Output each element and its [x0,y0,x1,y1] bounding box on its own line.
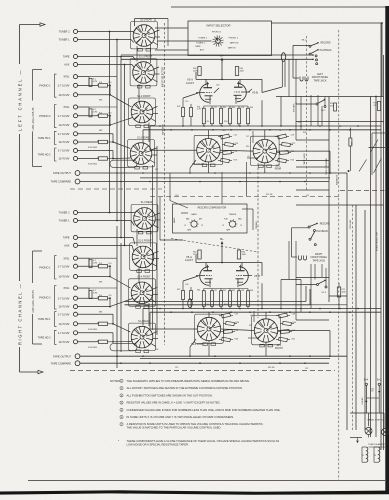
channel separation dashed line upper right [150,196,340,198]
filament feed wires [362,447,385,462]
input jack 2-7 10 MV [58,83,98,87]
right tape output bus wire [80,355,347,357]
svg-text:2-7 10 MV: 2-7 10 MV [58,84,70,88]
svg-text:TUNER 1: TUNER 1 [196,42,206,44]
svg-text:BASS: BASS [191,213,197,216]
svg-text:C26: C26 [234,151,237,153]
svg-text:R88: R88 [352,142,354,145]
svg-text:TAPE OUTPUT: TAPE OUTPUT [53,171,71,175]
svg-text:XTAL: XTAL [63,286,70,290]
svg-text:R45: R45 [232,107,235,109]
svg-text:V5-B: V5-B [254,274,260,278]
svg-text:TAPE IN: TAPE IN [228,46,236,49]
right area horizontal wire y279.5 [281,279,301,281]
vertical bus wire B right channel [120,243,122,352]
vertical bus wire aux [124,65,126,246]
INPUT SELECTOR box [188,21,272,56]
right vertical wire x370.5 [370,97,372,438]
BASS knob [184,213,203,231]
svg-text:10-70 MV: 10-70 MV [58,340,69,344]
svg-text:TAPE JACK: TAPE JACK [303,153,306,165]
svg-text:TAPE COMPARE: TAPE COMPARE [325,157,328,175]
svg-text:R41: R41 [292,339,295,341]
svg-text:TAPE: TAPE [63,55,70,59]
input jack TUNER 1 [59,37,131,41]
EQ network cluster right [275,130,295,163]
svg-text:500K: 500K [342,291,347,293]
svg-text:AUX: AUX [64,244,70,248]
svg-text:2-7 10 MV: 2-7 10 MV [58,149,70,153]
svg-text:TREBLE: TREBLE [256,221,258,229]
input jack 2-7 10 MV [58,296,98,300]
svg-text:R-6: R-6 [109,112,112,114]
selector box left stub wires [155,28,188,50]
svg-text:S7-2: S7-2 [322,292,327,294]
svg-text:12AX7: 12AX7 [185,258,194,262]
svg-text:78: 78 [240,225,242,227]
input jack XTAL [63,286,89,290]
rotary switch wafer S1-2 REAR [128,136,155,169]
rotary switch wafer S1-2 FRONT [129,96,156,128]
LOW LEVEL INPUTS bracket [32,251,42,344]
svg-text:S2-2 FRONT: S2-2 FRONT [191,344,205,346]
svg-text:C31: C31 [306,195,309,197]
svg-text:TAPE HD: TAPE HD [230,41,239,44]
svg-text:R-5: R-5 [109,263,112,265]
volume feed resistor [337,283,346,309]
schematic bottom border line [28,480,385,482]
RECORD PLAYBACK switch right channel [308,223,330,246]
svg-text:R19: R19 [234,160,237,162]
rotary switch wafer S1-3 FRONT [130,241,157,273]
shielded pair wire left channel [121,53,314,93]
svg-text:S1-4 REAR: S1-4 REAR [138,320,150,323]
TAPE HD 1 group label and bracket [38,312,57,327]
rotary wafer S2-2 REAR [192,135,223,166]
svg-text:PHONO 2: PHONO 2 [229,37,239,39]
svg-text:C38: C38 [241,290,244,292]
input jack 10-70 MV [58,140,98,144]
coupling cap C16 [214,85,252,94]
shield wire over S1-1 [135,19,169,27]
tape head 2 load resistor [88,340,108,349]
plate supply rail V3 [196,72,262,93]
vertical bus wire long right channel [116,226,118,368]
LEFT FRONT PANEL TAPE JACK label [312,73,329,82]
tube V5-A 12AX7 [185,255,213,288]
svg-text:REAR: REAR [275,167,282,170]
phono 2 divider resistor box [99,295,112,314]
phono group junction wires [89,258,114,342]
channel divider vertical wire [19,25,21,373]
misc value labels sprinkle [155,122,309,370]
svg-text:VOLUME: VOLUME [350,219,352,229]
svg-text:R40: R40 [293,322,296,324]
svg-text:RECORD: RECORD [320,224,330,226]
svg-text:R65: R65 [232,290,235,292]
input jack 2-7 10 MV [58,114,98,118]
S2 wafer vertical stubs right channel [209,312,266,356]
front panel jack hook outline [293,45,310,81]
svg-text:CONDENSER VALUES ARE IN MFD FO: CONDENSER VALUES ARE IN MFD FOR NUMBERS … [127,408,281,412]
sheet bottom black edge line [0,490,389,495]
svg-text:R38: R38 [236,322,239,324]
svg-text:LEFT CHANNEL —: LEFT CHANNEL — [17,69,22,131]
svg-text:100K: 100K [240,70,245,72]
shield loop around tape head wires right [110,344,137,351]
right vertical wire x365 [364,210,366,430]
input jack 10-70 MV [58,305,110,309]
TAPE COMPARE jack [51,361,80,366]
right area horizontal wire y296 [329,295,347,297]
balance pot diagonal wiper A [371,140,379,153]
plate resistor R40 [193,67,201,76]
svg-text:R17: R17 [155,169,158,171]
mid right mesh wires lower [248,264,329,338]
svg-text:AUX: AUX [200,49,205,52]
svg-text:10-70 MV: 10-70 MV [58,140,69,144]
right vertical wire x347 [346,173,348,430]
right tape bus junction dots [116,355,311,364]
right area horizontal wire y205 [296,204,384,206]
B+ feed arrow top [221,64,223,80]
svg-text:R24: R24 [303,132,306,134]
TAPE OUTPUT jack [53,171,80,176]
svg-text:PHONO 1: PHONO 1 [39,266,51,269]
svg-text:R61: R61 [197,290,200,292]
selector-to-right frame wire [272,22,384,97]
svg-text:R42: R42 [223,107,226,109]
TAPE HD 2 group label and bracket [38,148,57,161]
tape head 2 load resistor [88,157,108,166]
input jack TAPE [63,54,133,58]
V3 left grid components [177,93,198,126]
svg-text:R49 1M: R49 1M [268,367,275,369]
phono group junction wires [89,77,114,160]
input jack 10-70 MV [58,93,110,97]
panel lamp 2 [382,429,389,436]
svg-text:INPUT SELECTOR: INPUT SELECTOR [162,67,164,87]
svg-text:10-70 MV: 10-70 MV [58,157,69,161]
S2 right wafer feed wires [150,329,331,357]
wafer interconnect wires right channel [89,211,137,341]
svg-text:TUNER 1: TUNER 1 [59,38,70,42]
PHONO 1 group label and bracket [39,74,56,97]
resistor R-82 label [366,388,381,402]
tube filament winding V1 [362,447,368,462]
svg-text:.02: .02 [279,130,282,132]
svg-text:R20: R20 [246,146,249,148]
svg-text:4.7M: 4.7M [93,292,98,294]
svg-text:220K: 220K [193,254,198,256]
svg-text:C35: C35 [185,284,188,286]
svg-text:C37: C37 [214,290,217,292]
input jack 2-7 10 MV [58,331,113,335]
LOW LEVEL INPUTS bracket [32,70,42,167]
right vertical wire x383.5 [383,55,385,450]
tape output bus wire [80,172,347,174]
svg-text:220K: 220K [193,70,198,72]
phono 1 grid resistor [89,260,97,268]
power wires bottom right [350,413,384,440]
right tape shield bus wire [140,358,330,360]
right area horizontal wire y121.5 [296,121,384,123]
svg-text:1.0: 1.0 [298,122,301,124]
svg-text:10-70 MV: 10-70 MV [58,123,69,127]
S1 ganged shaft dash line [164,23,166,345]
input jack 2-7 10 MV [58,312,113,316]
svg-text:HUM ADJ: HUM ADJ [361,397,364,405]
svg-text:10-70 MV: 10-70 MV [58,93,69,97]
svg-text:TAPE HD 1: TAPE HD 1 [38,137,51,140]
EQ network cluster right channel B [276,313,296,342]
S2 ganged shaft dash line [257,163,259,318]
svg-text:BASS: BASS [173,217,176,223]
svg-text:C48: C48 [292,314,295,316]
svg-text:TAPE COMPARE: TAPE COMPARE [51,361,71,365]
svg-text:A RESISTOR IN SOME UNITS IS US: A RESISTOR IN SOME UNITS IS USED TO OBTA… [127,422,264,426]
plate resistor R60 [193,250,201,259]
svg-text:C18: C18 [241,107,244,109]
selector shield stub [167,19,169,47]
svg-text:THESE COMPONENTS HAVE A CLOSE: THESE COMPONENTS HAVE A CLOSE TOLERANCE … [127,439,280,443]
svg-text:PHONO 2: PHONO 2 [39,115,51,118]
switch S7-2 [296,268,327,294]
input jack XTAL [63,256,89,260]
record playback mechanical dash link [305,36,307,190]
RECORD PLAYBACK switch left channel [309,42,332,65]
vertical bus wire tuner2 [109,32,111,213]
svg-text:R-52 680K: R-52 680K [88,329,98,331]
svg-text:TAPE: TAPE [195,45,201,48]
inter-wafer vertical wire x152.5 [152,165,154,330]
svg-text:XTAL: XTAL [63,105,70,109]
V5 left grid components [177,276,198,309]
svg-text:C27: C27 [246,136,249,138]
input jack XTAL [63,75,89,79]
B+ feed arrow right channel [221,247,223,263]
svg-text:TAPE OUTPUT: TAPE OUTPUT [53,354,71,358]
right channel feed arrow [20,370,44,373]
svg-text:PANEL LIGHTS: PANEL LIGHTS [368,419,384,422]
svg-text:R43: R43 [224,121,227,123]
svg-text:C46: C46 [235,330,238,332]
right vertical wire x329 [328,97,330,303]
svg-text:V3-B: V3-B [252,91,258,95]
phono 1 divider resistor box [99,263,112,284]
EQ network cluster left [218,130,238,163]
svg-text:RESISTOR VALUES ARE IN OHMS, K: RESISTOR VALUES ARE IN OHMS, K = 1000. ½… [127,401,221,405]
svg-text:C47: C47 [250,315,253,317]
svg-text:C28: C28 [291,135,294,137]
input jack AUX [64,243,132,247]
svg-text:B+4: B+4 [364,380,369,382]
rotary wafer S2-1 REAR [251,136,282,170]
svg-text:TUNER 2: TUNER 2 [198,37,208,39]
svg-text:TAPE HD 2: TAPE HD 2 [38,154,51,157]
selector position labels [195,31,239,51]
svg-text:PHONO 2: PHONO 2 [39,296,51,299]
svg-text:IN SOME UNITS X IS 470 MMF AND: IN SOME UNITS X IS 470 MMF AND Y IS TWO … [127,415,235,419]
resistor R88 drop [348,128,354,172]
bus drop wires left channel [143,59,301,150]
svg-text:RIGHT CHANNEL —: RIGHT CHANNEL — [17,283,22,345]
wafer output stub wires [150,30,161,347]
B+ source terminal B+3 [377,380,382,414]
input selector dial [157,35,224,46]
svg-text:R-52 680K: R-52 680K [88,147,98,149]
svg-text:2-7 10 MV: 2-7 10 MV [58,132,70,136]
PHONO 2 group label and bracket [39,286,56,310]
inter-wafer vertical wire x157 [156,146,158,335]
audio bus wire pair left channel [143,125,381,130]
bus drop wires right channel [143,241,301,329]
TAPE HD 2 group label and bracket [38,330,57,344]
svg-text:12AX7: 12AX7 [186,81,195,85]
compensator mechanical dashed diagonal [171,239,258,253]
wafer interconnect wires left channel [89,29,136,159]
PHONO 1 group label and bracket [39,256,56,279]
tube V3-B [234,81,259,104]
svg-text:2-7 10 MV: 2-7 10 MV [58,331,70,335]
svg-text:RECORD: RECORD [321,43,331,45]
channel separation dashed line upper left [70,188,162,190]
svg-text:LP: LP [184,225,186,227]
svg-text:PLAYBACK: PLAYBACK [320,49,332,52]
V5 network labels [197,290,253,307]
svg-text:THE SCHEMATIC APPLIES TO C8S P: THE SCHEMATIC APPLIES TO C8S PREAMPLIFIE… [127,379,251,383]
svg-text:MODE SELECTOR: MODE SELECTOR [377,232,379,251]
svg-text:NOTES:: NOTES: [110,379,121,383]
svg-text:LOW LEVEL INPUTS: LOW LEVEL INPUTS [32,107,35,130]
svg-text:10-70 MV: 10-70 MV [58,322,69,326]
svg-text:INPUT SELECTOR: INPUT SELECTOR [206,23,230,27]
right vertical wire x381 [380,23,382,450]
svg-text:C45: C45 [235,314,238,316]
input jack 10-70 MV [58,340,98,344]
shielded pair wire right channel [125,286,311,308]
svg-text:4.7M: 4.7M [93,263,98,265]
shield loop around tape head wires left [110,160,137,167]
svg-text:TUBE FILAMENTS: TUBE FILAMENTS [368,443,387,446]
input jack XTAL [63,105,89,109]
svg-text:C15: C15 [185,101,188,103]
svg-text:10-70 MV: 10-70 MV [58,275,69,279]
plate supply rail V5 [196,255,262,276]
svg-text:R46: R46 [250,107,253,109]
svg-text:.005: .005 [222,130,226,132]
rotary wafer S2-1 FRONT [252,316,284,350]
V3 cathode network components [202,106,249,126]
plate resistor R64 [237,250,246,259]
svg-text:R-53 680K: R-53 680K [88,347,98,349]
svg-text:B+: B+ [220,53,224,57]
phono 1 divider resistor box [99,82,112,102]
balance pot diagonal wiper C [359,160,367,172]
rotary switch wafer S1-1 REAR [131,18,158,51]
svg-text:THE VALUE IS MATCHED TO THE PA: THE VALUE IS MATCHED TO THE PARTICULAR V… [127,426,222,430]
svg-text:B+3: B+3 [377,380,382,382]
svg-text:S8-1: S8-1 [301,40,306,42]
svg-text:PLAYBACK: PLAYBACK [316,230,328,233]
svg-text:FRONT: FRONT [275,348,284,350]
svg-text:C50: C50 [206,121,209,123]
sheet top border wire [171,6,386,8]
close tolerance note [118,439,279,447]
svg-text:S2-1: S2-1 [276,166,282,168]
svg-text:S2-1: S2-1 [277,345,283,347]
sheet right edge black bar [385,6,389,492]
svg-text:4.7M: 4.7M [93,81,98,83]
V5 cathode network components [202,289,249,309]
svg-text:100K: 100K [242,254,247,256]
svg-text:C30: C30 [175,195,178,197]
tube V5-B [236,265,261,288]
svg-text:R-5: R-5 [109,82,112,84]
svg-text:TUNER 2: TUNER 2 [59,211,70,215]
svg-text:RECORD COMPENSATOR: RECORD COMPENSATOR [198,207,227,210]
EQ network cluster right channel A [219,313,239,342]
svg-text:R23: R23 [291,160,294,162]
TAPE COMPARE jack [51,179,80,184]
mid right mesh wires upper [247,95,329,167]
rotary switch wafer S1-4 REAR [129,320,156,353]
tube V3-A 12AX7 [186,78,213,105]
panel lamp 1 [365,428,372,435]
tape head 1 load resistor [88,322,108,331]
plate resistor R44 [235,67,244,76]
volume mechanical dash link [351,205,353,430]
svg-text:R25 1M: R25 1M [266,194,273,196]
svg-text:TREBLE: TREBLE [229,214,237,216]
phono 2 grid resistor [89,109,97,117]
svg-text:AUX: AUX [64,63,70,67]
svg-text:R47: R47 [177,106,180,108]
input jack TUNER 2 [59,210,134,214]
S2 wafer feed wires [150,150,331,174]
PHONO 2 group label and bracket [39,105,56,128]
rotary switch wafer S1-3 REAR [131,201,158,234]
channel separation dashed line far right [340,189,385,191]
input jack TUNER 1 [59,218,131,222]
svg-text:2-7 10 MV: 2-7 10 MV [58,114,70,118]
svg-text:TAPE JACK: TAPE JACK [312,259,325,262]
tube filament winding V2 [374,447,380,462]
svg-text:S2-2 REAR: S2-2 REAR [192,163,204,166]
svg-text:R36: R36 [155,349,158,351]
svg-text:R-4: R-4 [99,295,102,297]
svg-text:R-3: R-3 [99,82,102,84]
vertical bus wire tape [120,57,122,238]
resistor R74 [330,103,337,111]
TREBLE knob [222,214,242,231]
svg-text:LOW NOISE OR A SPECIAL RESIST: LOW NOISE OR A SPECIAL RESISTANCE TAPER. [127,443,189,447]
svg-text:S1-3 REAR: S1-3 REAR [141,201,153,204]
tape bus junction dots [116,172,311,182]
V3 network labels [197,107,253,124]
compensator feed vertical wire [222,162,247,204]
input jack 2-7 10 MV [58,132,113,136]
svg-text:R-53 680K: R-53 680K [88,164,98,166]
svg-text:C51: C51 [175,367,178,369]
input jack 10-70 MV [58,274,110,278]
svg-text:BALANCE: BALANCE [336,174,339,185]
RECORD COMPENSATOR box [173,204,248,233]
svg-text:XTAL: XTAL [63,75,70,79]
svg-text:S1-2 FRONT: S1-2 FRONT [137,96,151,98]
right vertical wire x356 [355,205,357,430]
right front panel jack hook outline [292,228,310,260]
